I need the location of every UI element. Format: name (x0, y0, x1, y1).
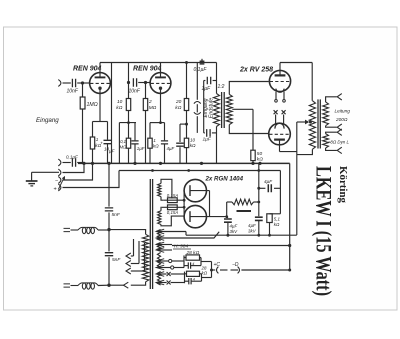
ground symbol (26, 172, 59, 186)
node grid2 leak junction (144, 81, 147, 84)
tube V1 anode bar (95, 76, 106, 78)
label 10nF (67, 89, 79, 95)
wire primary bottom return (297, 149, 313, 154)
label plus C (214, 262, 221, 268)
tube V2 grid dashed (151, 82, 171, 84)
tube V1 anode lead (99, 63, 101, 78)
label 8ohm DynL (328, 140, 349, 145)
bus corner down (289, 163, 291, 270)
svg-text:kΩ: kΩ (190, 143, 196, 148)
label LKEW I 15 Watt (312, 166, 337, 296)
svg-text:4µF: 4µF (248, 223, 256, 228)
transformer T3 core (150, 179, 152, 289)
node CD right (288, 269, 291, 272)
svg-text:2: 2 (148, 99, 152, 105)
wire to 1M (82, 83, 84, 97)
tube V1 grid dashed (90, 82, 110, 84)
svg-text:+C: +C (214, 262, 221, 268)
wire sec2 bottom (326, 147, 342, 153)
svg-text:−: − (55, 178, 58, 184)
label 10nF coupling (129, 89, 141, 95)
winding heater B (157, 243, 160, 251)
node coupling junction (127, 81, 130, 84)
svg-text:50: 50 (257, 151, 263, 157)
wire tap down (252, 109, 254, 150)
svg-text:10nF: 10nF (67, 89, 79, 95)
wire branch left (180, 124, 187, 142)
tube V2 anode bar (155, 76, 166, 78)
wire zig to node (254, 201, 261, 217)
resistor 28k net1 (184, 255, 201, 268)
label 1uF lower (203, 137, 212, 143)
choke L2 (64, 283, 110, 289)
svg-text:REN 904: REN 904 (73, 66, 102, 73)
tap 1 (126, 239, 134, 259)
svg-text:H: 904: H: 904 (174, 244, 188, 250)
heater B leads (156, 242, 172, 252)
node choke1 (107, 228, 110, 231)
tube V5 electrode (190, 185, 210, 196)
svg-text:MΩ: MΩ (120, 145, 127, 150)
wire cathode1 split (93, 121, 108, 123)
svg-text:−D: −D (232, 262, 239, 268)
transformer T2 secondary dyn (323, 134, 329, 148)
capacitor 10nF coupling (133, 78, 136, 86)
svg-text:≈8Ω Dyn L: ≈8Ω Dyn L (328, 140, 349, 145)
wire 20k mid (185, 111, 188, 139)
capacitor 1uF interstage (204, 77, 217, 85)
terminal minus D (238, 267, 290, 274)
transformer T3 primary (142, 234, 148, 281)
wire rail to 20k (186, 63, 188, 99)
wire input (63, 82, 71, 84)
svg-text:kΩ: kΩ (274, 222, 280, 227)
label 200ohm (335, 117, 348, 122)
svg-text:5,1: 5,1 (274, 217, 281, 222)
wire V3 rail down (311, 63, 313, 101)
capacitor 5nF upper (105, 163, 113, 229)
svg-text:1µF: 1µF (203, 137, 212, 143)
svg-text:10nF: 10nF (129, 89, 141, 95)
label 10uF (104, 147, 116, 154)
tube V4 filament x pins (274, 110, 286, 123)
capacitor 0.1uF rail (185, 59, 204, 64)
label 2x RGN 1404 (205, 176, 244, 183)
capacitor net2 (185, 277, 202, 284)
wire B rail drop (279, 171, 281, 214)
wire anode rail y62.5 (100, 62, 217, 64)
wire 50k to bus (251, 161, 261, 165)
label 50k (257, 151, 263, 163)
svg-text:0,15A: 0,15A (167, 210, 179, 215)
wire fuse join (181, 206, 184, 208)
tube V2 REN904 envelope (150, 73, 171, 94)
tube V2 anode lead (160, 63, 162, 78)
svg-text:MΩ: MΩ (149, 105, 157, 111)
wire V4 cathode out (280, 151, 297, 153)
tap 2 (126, 241, 139, 267)
wire 1M to bus (82, 109, 84, 163)
resistor 20k (184, 99, 188, 111)
winding HT2 (158, 211, 161, 225)
wire R to bus (92, 149, 94, 163)
tube V4 RV258 envelope (269, 123, 291, 145)
bus junction dots (82, 162, 203, 165)
wire decoupling top (119, 121, 136, 124)
label 20k (175, 99, 182, 111)
label Koerting (337, 166, 348, 204)
label 1k cathode2 (153, 138, 159, 149)
svg-text:3kV: 3kV (230, 229, 239, 234)
tube V3 grid dashed (270, 81, 290, 83)
wire branch to bus (179, 147, 181, 163)
svg-text:3kV: 3kV (248, 228, 257, 233)
svg-text:kΩ: kΩ (175, 105, 181, 111)
svg-text:1µF: 1µF (137, 146, 145, 151)
wire к C (107, 122, 109, 140)
svg-text:4µF: 4µF (167, 146, 175, 151)
label 4uF3kV (248, 223, 257, 233)
wire sec2 top (326, 129, 342, 135)
label REN 904 first (73, 66, 102, 73)
heater D leads (156, 272, 184, 285)
svg-text:1:2: 1:2 (218, 84, 225, 90)
label 51k (274, 217, 281, 228)
tube V2 cathode (159, 87, 162, 123)
net2 right (202, 269, 214, 282)
wire rail to 10k (128, 63, 130, 99)
label 0.15A F2 (167, 210, 179, 215)
wire decoupling left (118, 123, 120, 164)
svg-text:kΩ: kΩ (202, 271, 208, 276)
wire 10k second to bus (186, 148, 188, 164)
label 2x RV 258 (239, 67, 273, 74)
wire HT1 top (161, 179, 172, 198)
wire screen drop (111, 63, 113, 164)
wire patch break (194, 63, 201, 133)
resistor 0.1M decoupling (126, 123, 130, 164)
tube V4 anode bar (274, 140, 285, 152)
wire filament tie (183, 191, 186, 216)
label REN 904 second (133, 66, 162, 73)
wire HT2 top (160, 207, 163, 210)
wire bottom tie (186, 234, 297, 237)
svg-text:4: 4 (193, 277, 195, 281)
svg-text:2x RGN 1404: 2x RGN 1404 (205, 176, 244, 183)
svg-text:20: 20 (175, 99, 182, 105)
svg-text:Eingang: Eingang (36, 117, 59, 124)
capacitor 1uF decoupling (131, 123, 138, 164)
svg-text:28 kΩ: 28 kΩ (186, 250, 200, 256)
terminal plus C (212, 267, 219, 274)
capacitor 10uF cathode1 (100, 140, 111, 145)
svg-text:4µF: 4µF (230, 224, 238, 229)
svg-text:1MΩ: 1MΩ (87, 102, 98, 108)
wire sec center tap (232, 108, 253, 110)
wire C to bus (107, 144, 109, 163)
transformer T1 secondary (226, 94, 232, 124)
wire bus1 drop to caps (258, 163, 260, 202)
bus B+ dots (151, 169, 260, 172)
svg-text:Endstufe: Endstufe (209, 98, 215, 119)
label 1k (95, 137, 101, 148)
label 28k second (201, 266, 208, 276)
tube V5 RGN1404 envelope (184, 179, 206, 201)
label 28k (186, 250, 200, 256)
label 0.1uF (194, 67, 208, 73)
svg-text:200Ω: 200Ω (335, 117, 348, 122)
label 5nF lower (112, 257, 121, 263)
svg-text:+: + (54, 187, 57, 193)
svg-text:10: 10 (117, 99, 123, 105)
wire primary bottom (109, 282, 145, 288)
terminal t4 plus (54, 171, 120, 193)
svg-text:+: + (100, 141, 103, 146)
label 10k second (190, 138, 196, 149)
wire cap to grid (77, 82, 89, 84)
wire 1uF left leg (204, 81, 205, 133)
svg-text:1µF: 1µF (202, 86, 212, 92)
node choke2 (107, 284, 110, 287)
label 4uF top (264, 179, 273, 184)
capacitor 0.1uF mains (58, 158, 84, 166)
wire sec bottom to grid (229, 125, 268, 134)
svg-text:kΩ: kΩ (116, 105, 122, 111)
bus ground (78, 162, 290, 164)
net1 right (201, 258, 212, 271)
tube V4 filament loop (275, 123, 284, 128)
wire heater B out (172, 244, 291, 247)
resistor 10k (126, 99, 130, 111)
svg-text:0,1µF: 0,1µF (66, 155, 79, 160)
capacitor 1uF lower (207, 129, 217, 137)
resistor 1k cathode1 (90, 137, 94, 149)
wire CD gap (220, 269, 238, 271)
svg-text:5nF: 5nF (112, 257, 121, 263)
tube V3 pins (275, 92, 286, 102)
winding heater A (157, 230, 160, 241)
label 0.1uF mains (66, 155, 79, 160)
transformer T1 core (222, 92, 225, 128)
resistor 2M (143, 99, 147, 111)
tube V3 RV258 envelope (269, 70, 290, 91)
wire B+ tap arrow (297, 120, 312, 125)
capacitor 4uF cathode2 (161, 123, 168, 164)
transformer T2 secondary line (323, 102, 329, 126)
transformer T1 primary (214, 94, 220, 127)
resistor 28k net2 (185, 271, 202, 283)
bus B+ rail (119, 170, 280, 172)
transformer T2 core (318, 99, 320, 148)
svg-text:kΩ: kΩ (153, 144, 159, 149)
winding heater C (157, 253, 160, 268)
tap 3 (126, 243, 145, 274)
wire sec top to grid (229, 82, 268, 95)
tube V6 RGN1404 envelope (184, 205, 206, 227)
label Eingang (36, 117, 59, 124)
capacitor 4uF3kV first (224, 217, 232, 235)
capacitor net1 (184, 262, 201, 269)
wire HT1 bottom (161, 197, 164, 201)
label 1uF interstage (202, 86, 212, 92)
wire to 2M (145, 83, 147, 99)
wire primary bottom to bus (216, 127, 218, 164)
label 0.1M (120, 139, 127, 150)
heater A leads (156, 229, 219, 240)
label minus D (232, 262, 239, 268)
fuse F1 (164, 198, 184, 203)
tube V1 cathode (98, 87, 101, 122)
resistor 10k second (184, 138, 188, 147)
svg-text:4µF: 4µF (264, 179, 273, 184)
terminal t3 minus (55, 163, 93, 189)
transformer T2 primary (309, 101, 315, 150)
label Leitung (335, 109, 351, 114)
svg-text:0,15A: 0,15A (167, 193, 179, 198)
wire 2M to bus (145, 111, 147, 164)
label 4uF3kV first (230, 224, 239, 234)
svg-text:5nF: 5nF (112, 212, 121, 218)
tube V1 REN904 envelope (90, 73, 111, 94)
label 4uF cathode2 (167, 146, 175, 151)
tube V4 grid dashed (269, 133, 289, 135)
bar under zigzag (237, 210, 252, 212)
wire primary top (109, 230, 146, 235)
label 2M (148, 99, 157, 111)
label 1uF (137, 146, 145, 151)
svg-text:REN 904: REN 904 (133, 66, 162, 73)
tube V6 electrode (190, 211, 227, 222)
label 10k (116, 99, 122, 111)
label 5nF upper (112, 212, 121, 218)
svg-text:0,1: 0,1 (120, 139, 126, 144)
svg-text:10: 10 (190, 138, 196, 143)
capacitor 5nF lower (105, 230, 113, 286)
heater C leads (156, 259, 184, 270)
choke L1 (64, 227, 110, 233)
wire B+ leg (296, 122, 298, 235)
wire cathode2 split (150, 121, 165, 124)
svg-text:LKEW I (15 Watt): LKEW I (15 Watt) (312, 166, 337, 296)
label Eingang Endstufe (203, 98, 215, 119)
fuse F2 (162, 205, 181, 210)
tube V3 filament loop (276, 89, 284, 93)
node grid1 junction (81, 81, 84, 84)
resistor smoothing zigzag (232, 199, 254, 205)
label 1:2 (218, 84, 225, 90)
terminal input Eingang (58, 80, 61, 87)
svg-text:kΩ: kΩ (257, 157, 263, 163)
svg-text:1: 1 (96, 137, 99, 142)
svg-text:2x RV 258: 2x RV 258 (239, 67, 273, 74)
label 1M (87, 102, 98, 108)
wire 10k down (128, 111, 130, 123)
terminal t2 (58, 163, 84, 176)
wire rail corner down (216, 63, 218, 94)
capacitor 4uF 3kV (255, 217, 263, 235)
wire anode to zig (227, 201, 232, 203)
tube V3 anode bar (275, 63, 286, 76)
wire anode tie (210, 191, 229, 218)
wire sec1 top (326, 94, 342, 102)
resistor 1M (80, 97, 85, 109)
label H 904 (173, 244, 191, 250)
wire к R (92, 122, 94, 138)
resistor 50k (251, 150, 255, 160)
resistor 1k cathode2 (148, 123, 152, 164)
capacitor 4uF top (257, 184, 280, 192)
wire HT2 bottom jog (161, 216, 184, 226)
label 0.15A F1 (167, 193, 179, 198)
winding HT1 (158, 183, 161, 196)
capacitor branch (176, 143, 184, 146)
resistor 51k (267, 214, 281, 235)
svg-text:4: 4 (192, 262, 194, 266)
capacitor 10nF input (72, 79, 75, 87)
wire V3 anode rail (280, 62, 312, 64)
svg-text:Körting: Körting (337, 166, 348, 204)
wire sec1 bottom (326, 124, 342, 130)
svg-text:0,1µF: 0,1µF (194, 67, 208, 73)
wire coupling to grid2 (138, 82, 149, 84)
svg-text:Leitung: Leitung (335, 109, 351, 114)
winding heater D (157, 272, 160, 286)
